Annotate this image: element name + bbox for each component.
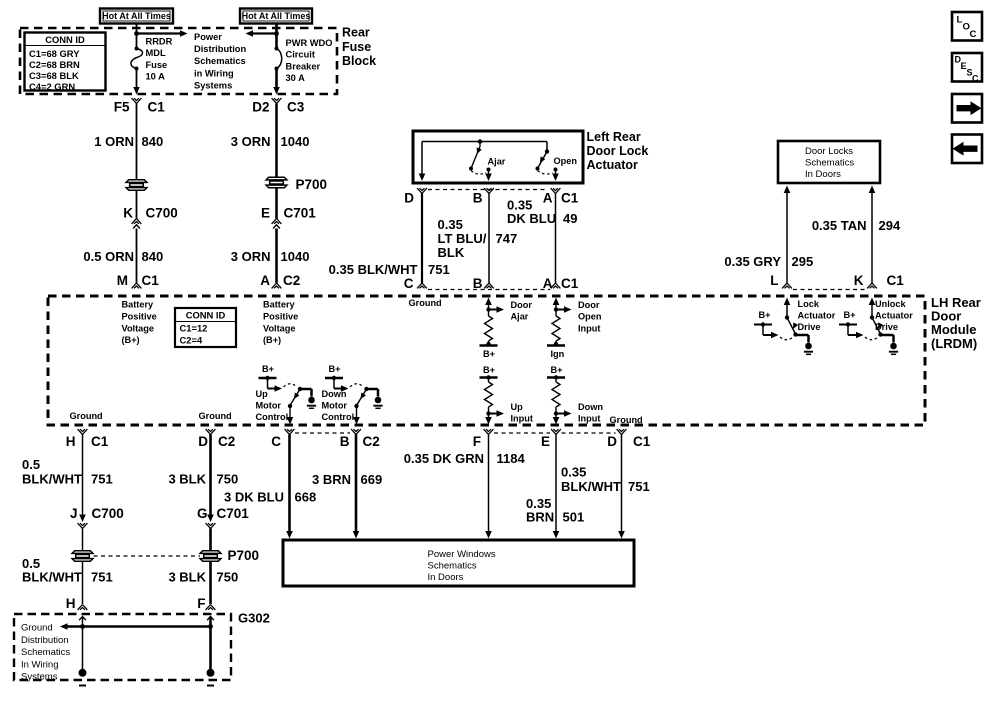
svg-text:Hot At All Times: Hot At All Times xyxy=(242,11,311,21)
svg-text:B+: B+ xyxy=(262,364,274,374)
svg-text:751: 751 xyxy=(91,472,113,487)
svg-text:PWR WDO: PWR WDO xyxy=(286,38,333,48)
svg-text:668: 668 xyxy=(295,490,317,505)
svg-text:Down: Down xyxy=(322,389,347,399)
svg-text:Ground: Ground xyxy=(610,415,643,425)
svg-text:A: A xyxy=(543,276,553,291)
svg-text:49: 49 xyxy=(563,211,577,226)
svg-text:751: 751 xyxy=(428,262,450,277)
svg-text:M: M xyxy=(117,273,128,288)
svg-text:B: B xyxy=(473,191,483,206)
svg-text:Drive: Drive xyxy=(798,322,821,332)
svg-text:Input: Input xyxy=(578,414,600,424)
svg-text:C: C xyxy=(271,434,281,449)
svg-text:3 BLK: 3 BLK xyxy=(168,472,206,487)
svg-text:Systems: Systems xyxy=(21,672,58,683)
svg-text:C1: C1 xyxy=(142,273,160,288)
svg-text:1040: 1040 xyxy=(281,134,310,149)
svg-text:Up: Up xyxy=(511,402,524,412)
svg-text:BRN: BRN xyxy=(526,510,554,525)
svg-text:751: 751 xyxy=(628,479,650,494)
svg-text:H: H xyxy=(66,596,76,611)
svg-text:294: 294 xyxy=(879,218,901,233)
svg-text:3 BRN: 3 BRN xyxy=(312,472,351,487)
svg-text:F: F xyxy=(473,434,481,449)
svg-text:750: 750 xyxy=(217,570,239,585)
svg-text:1 ORN: 1 ORN xyxy=(94,134,134,149)
svg-text:D: D xyxy=(198,434,208,449)
svg-text:Up: Up xyxy=(256,389,269,399)
svg-text:(B+): (B+) xyxy=(122,335,140,345)
svg-text:CONN ID: CONN ID xyxy=(186,310,226,321)
svg-text:669: 669 xyxy=(361,472,383,487)
svg-text:C: C xyxy=(404,276,414,291)
svg-text:C700: C700 xyxy=(92,506,124,521)
svg-text:E: E xyxy=(261,206,270,221)
svg-text:(LRDM): (LRDM) xyxy=(931,336,977,351)
svg-text:BLK/WHT: BLK/WHT xyxy=(22,472,82,487)
svg-text:K: K xyxy=(854,273,864,288)
svg-text:H: H xyxy=(66,434,76,449)
svg-text:Open: Open xyxy=(578,312,602,322)
svg-text:Battery: Battery xyxy=(122,300,155,310)
svg-text:Ground: Ground xyxy=(409,298,442,308)
svg-text:30 A: 30 A xyxy=(286,73,306,83)
svg-text:Positive: Positive xyxy=(122,311,157,321)
svg-text:BLK/WHT: BLK/WHT xyxy=(561,479,621,494)
svg-text:C2: C2 xyxy=(283,273,300,288)
svg-text:0.35 GRY: 0.35 GRY xyxy=(724,254,781,269)
svg-text:751: 751 xyxy=(91,570,113,585)
svg-text:Rear: Rear xyxy=(342,26,370,40)
svg-text:0.5 ORN: 0.5 ORN xyxy=(83,249,134,264)
svg-text:Ground: Ground xyxy=(70,411,103,421)
svg-text:Power Windows: Power Windows xyxy=(428,549,496,560)
svg-text:C1: C1 xyxy=(633,434,651,449)
svg-text:C1: C1 xyxy=(561,276,579,291)
svg-text:C4=2 GRN: C4=2 GRN xyxy=(29,81,75,92)
svg-text:750: 750 xyxy=(217,472,239,487)
svg-text:J: J xyxy=(70,506,78,521)
svg-text:Actuator: Actuator xyxy=(875,311,913,321)
svg-text:Circuit: Circuit xyxy=(286,50,315,60)
svg-text:B+: B+ xyxy=(329,364,341,374)
svg-text:E: E xyxy=(541,434,550,449)
svg-text:3 DK BLU: 3 DK BLU xyxy=(224,490,284,505)
svg-text:L: L xyxy=(770,273,778,288)
svg-text:B: B xyxy=(473,276,483,291)
svg-text:0.35 DK GRN: 0.35 DK GRN xyxy=(404,451,484,466)
svg-text:In Wiring: In Wiring xyxy=(21,659,58,670)
svg-text:C2: C2 xyxy=(363,434,380,449)
svg-text:295: 295 xyxy=(792,254,814,269)
svg-text:C: C xyxy=(972,74,979,84)
svg-text:B+: B+ xyxy=(483,365,495,375)
svg-text:Ground: Ground xyxy=(21,623,53,634)
svg-text:Block: Block xyxy=(342,54,376,68)
svg-text:Unlock: Unlock xyxy=(875,299,907,309)
svg-text:B+: B+ xyxy=(551,365,563,375)
svg-text:0.35: 0.35 xyxy=(561,465,586,480)
svg-text:3 ORN: 3 ORN xyxy=(231,249,271,264)
svg-text:0.35: 0.35 xyxy=(438,217,463,232)
svg-text:501: 501 xyxy=(563,510,585,525)
svg-text:D2: D2 xyxy=(252,100,269,115)
svg-text:A: A xyxy=(543,191,553,206)
svg-text:MDL: MDL xyxy=(146,48,166,58)
svg-text:DK BLU: DK BLU xyxy=(507,211,556,226)
svg-text:In Doors: In Doors xyxy=(428,572,464,583)
svg-text:B+: B+ xyxy=(483,349,495,359)
svg-text:B+: B+ xyxy=(759,310,771,320)
svg-text:Fuse: Fuse xyxy=(146,60,168,70)
svg-text:Ajar: Ajar xyxy=(511,312,529,322)
svg-text:BLK/WHT: BLK/WHT xyxy=(22,570,82,585)
svg-text:Control: Control xyxy=(256,412,289,422)
svg-text:Door: Door xyxy=(578,300,600,310)
svg-text:K: K xyxy=(123,206,133,221)
svg-text:Motor: Motor xyxy=(322,401,348,411)
svg-text:D: D xyxy=(607,434,617,449)
svg-text:0.35 BLK/WHT: 0.35 BLK/WHT xyxy=(329,262,418,277)
svg-text:Down: Down xyxy=(578,402,603,412)
svg-text:G: G xyxy=(197,506,208,521)
svg-text:Motor: Motor xyxy=(256,401,282,411)
svg-text:Door: Door xyxy=(511,300,533,310)
svg-text:Control: Control xyxy=(322,412,355,422)
svg-text:C701: C701 xyxy=(284,206,317,221)
svg-text:747: 747 xyxy=(496,231,518,246)
svg-text:C1=68 GRY: C1=68 GRY xyxy=(29,48,80,59)
svg-text:A: A xyxy=(260,273,270,288)
svg-text:C3=68 BLK: C3=68 BLK xyxy=(29,70,79,81)
svg-text:Ground: Ground xyxy=(199,411,232,421)
svg-text:Left Rear: Left Rear xyxy=(587,130,641,144)
svg-text:C1=12: C1=12 xyxy=(180,323,208,334)
svg-text:0.35 TAN: 0.35 TAN xyxy=(812,218,867,233)
svg-text:C1: C1 xyxy=(887,273,905,288)
svg-text:Voltage: Voltage xyxy=(263,323,296,333)
svg-text:Systems: Systems xyxy=(194,80,232,90)
svg-text:B: B xyxy=(340,434,350,449)
svg-text:C: C xyxy=(970,29,977,40)
svg-text:0.5: 0.5 xyxy=(22,457,40,472)
svg-text:C700: C700 xyxy=(146,206,178,221)
svg-text:3 ORN: 3 ORN xyxy=(231,134,271,149)
svg-text:Hot At All Times: Hot At All Times xyxy=(102,11,171,21)
svg-text:LT BLU/: LT BLU/ xyxy=(438,231,487,246)
svg-text:840: 840 xyxy=(142,249,164,264)
svg-text:10 A: 10 A xyxy=(146,72,166,82)
svg-text:1040: 1040 xyxy=(281,249,310,264)
svg-text:Voltage: Voltage xyxy=(122,323,155,333)
svg-text:Actuator: Actuator xyxy=(587,158,639,172)
svg-text:Breaker: Breaker xyxy=(286,61,321,71)
svg-text:BLK: BLK xyxy=(438,245,465,260)
svg-text:Schematics: Schematics xyxy=(21,647,70,658)
svg-text:Distribution: Distribution xyxy=(194,44,246,54)
svg-text:Drive: Drive xyxy=(875,322,898,332)
svg-text:Input: Input xyxy=(578,323,600,333)
svg-text:B+: B+ xyxy=(844,310,856,320)
svg-text:D: D xyxy=(404,191,414,206)
svg-text:Distribution: Distribution xyxy=(21,635,69,646)
svg-text:C2=68 BRN: C2=68 BRN xyxy=(29,59,80,70)
svg-text:Input: Input xyxy=(511,414,533,424)
svg-text:C2: C2 xyxy=(218,434,235,449)
svg-text:CONN ID: CONN ID xyxy=(45,34,85,45)
svg-text:Fuse: Fuse xyxy=(342,40,371,54)
svg-text:840: 840 xyxy=(142,134,164,149)
svg-text:C3: C3 xyxy=(287,100,305,115)
svg-text:Schematics: Schematics xyxy=(194,56,246,66)
svg-text:Ajar: Ajar xyxy=(488,157,506,167)
svg-text:C701: C701 xyxy=(217,506,250,521)
svg-text:Door Lock: Door Lock xyxy=(587,144,649,158)
svg-text:C1: C1 xyxy=(561,191,579,206)
svg-text:P700: P700 xyxy=(228,548,260,563)
svg-text:Power: Power xyxy=(194,32,222,42)
svg-text:C1: C1 xyxy=(91,434,109,449)
svg-text:in Wiring: in Wiring xyxy=(194,68,234,78)
svg-text:Schematics: Schematics xyxy=(805,158,854,169)
svg-text:Lock: Lock xyxy=(798,299,820,309)
svg-text:1184: 1184 xyxy=(497,451,526,466)
svg-text:(B+): (B+) xyxy=(263,335,281,345)
svg-text:Open: Open xyxy=(554,156,578,166)
svg-text:P700: P700 xyxy=(296,177,328,192)
svg-text:Positive: Positive xyxy=(263,311,298,321)
svg-text:F: F xyxy=(197,596,205,611)
svg-text:Door Locks: Door Locks xyxy=(805,146,853,157)
svg-text:Actuator: Actuator xyxy=(798,311,836,321)
svg-text:Ign: Ign xyxy=(551,349,565,359)
svg-text:3 BLK: 3 BLK xyxy=(168,570,206,585)
svg-text:G302: G302 xyxy=(238,611,270,626)
svg-text:RRDR: RRDR xyxy=(146,37,173,47)
svg-text:In Doors: In Doors xyxy=(805,169,841,180)
svg-text:F5: F5 xyxy=(114,100,130,115)
svg-text:C2=4: C2=4 xyxy=(180,335,203,346)
svg-text:Schematics: Schematics xyxy=(428,561,477,572)
svg-text:Battery: Battery xyxy=(263,300,296,310)
svg-text:C1: C1 xyxy=(148,100,166,115)
